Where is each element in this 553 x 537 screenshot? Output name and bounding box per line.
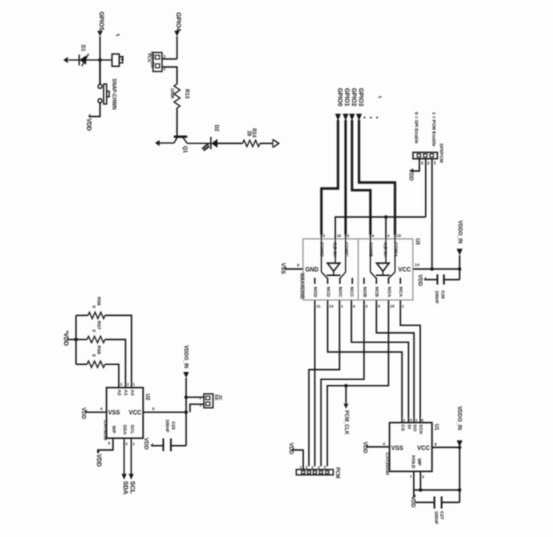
- connector PCM: [296, 470, 333, 475]
- svg-text:13: 13: [329, 304, 334, 309]
- svg-text:WP: WP: [417, 458, 422, 465]
- svg-text:LED EN: LED EN: [150, 52, 155, 68]
- svg-text:SNAP-CHWN: SNAP-CHWN: [110, 79, 116, 110]
- svg-text:SDA: SDA: [122, 425, 128, 436]
- wire GPIO1 to COMC pin6: [344, 120, 346, 235]
- svg-text:JC: JC: [218, 395, 223, 401]
- svg-text:NCA: NCA: [398, 287, 404, 298]
- svg-text:C27: C27: [440, 511, 445, 520]
- power VDD (U2 WP): [98, 451, 100, 453]
- svg-text:PCM_CLK: PCM_CLK: [343, 410, 349, 435]
- wire NOD to PCM pin3: [314, 305, 316, 466]
- svg-text:5: 5: [410, 419, 412, 423]
- wire J1 pin2 to switch control line: [425, 159, 427, 217]
- svg-text:6: 6: [421, 419, 423, 423]
- wire NCD to U1 CS: [328, 305, 402, 419]
- switch S1 SNAP-CHWN: [98, 84, 102, 88]
- U3 COMB line and arm: [369, 239, 371, 272]
- svg-text:39: 39: [246, 131, 252, 137]
- svg-text:C26: C26: [441, 290, 446, 299]
- net flag SCL (down arrow): [129, 474, 134, 480]
- analog switch U3 MAX4539B body: [303, 239, 413, 300]
- power VDD (PCM pin1): [292, 448, 294, 450]
- power VDD (C25): [151, 444, 153, 446]
- svg-text:100K: 100K: [170, 88, 175, 100]
- svg-text:PCM: PCM: [334, 467, 340, 478]
- svg-text:VDD: VDD: [95, 454, 101, 467]
- svg-text:R56: R56: [96, 297, 102, 306]
- wire NCA to U1 SCK: [400, 305, 420, 419]
- capacitor C26 100nF: [424, 279, 437, 281]
- junction U3 VCC / J1 pin1: [430, 267, 433, 270]
- svg-text:1: 1: [300, 465, 302, 469]
- svg-text:2: 2: [126, 442, 128, 446]
- wire U1 ground rail: [414, 489, 460, 491]
- junction at switch node: [98, 58, 101, 61]
- test point TP3 box: [112, 54, 119, 66]
- stray mark: [116, 34, 119, 35]
- wire GPIO2 to COMB pin4: [352, 120, 370, 235]
- U3 switch contact stubs: [314, 278, 316, 284]
- wire R58 to A2: [105, 364, 119, 383]
- svg-text:4: 4: [318, 465, 320, 469]
- net flag GPIO2: [349, 114, 355, 121]
- U3 internal driver triangle A,B: [385, 239, 387, 263]
- net flag PCM_CLK (down arrow): [345, 386, 347, 404]
- wire GPIO5 vertical: [99, 36, 101, 84]
- svg-text:SDA: SDA: [121, 481, 128, 495]
- wire VCC to VDDO_IN: [432, 268, 460, 270]
- svg-text:A2: A2: [116, 389, 122, 395]
- svg-text:5: 5: [108, 442, 110, 446]
- jumper EE JC: [204, 394, 213, 408]
- U1 top pin stubs and numbers: [401, 418, 403, 422]
- svg-text:2: 2: [415, 419, 417, 423]
- svg-text:VSS: VSS: [108, 411, 120, 417]
- power VDD (address resistors): [67, 331, 69, 333]
- svg-text:U3: U3: [414, 238, 420, 245]
- svg-text:NOC: NOC: [337, 287, 343, 298]
- wire control line to C,D IN+ and A,B IN+: [335, 217, 425, 235]
- resistor R14 39: [243, 140, 261, 146]
- net flag GPIO0: [335, 114, 341, 121]
- wire J1 pin3 to VDD: [411, 159, 419, 171]
- svg-text:GPIO4: GPIO4: [175, 12, 182, 31]
- svg-text:VDD: VDD: [408, 169, 414, 181]
- svg-text:MAX4539B: MAX4539B: [299, 273, 305, 299]
- capacitor C27 100nF: [415, 501, 435, 503]
- svg-text:VDD: VDD: [409, 496, 415, 507]
- svg-text:R57: R57: [96, 321, 102, 330]
- U3 pin GND (5): [285, 268, 303, 270]
- svg-text:GPIO3: GPIO3: [357, 88, 363, 107]
- power VDD at U2 VSS: [85, 410, 87, 412]
- power VDD at U1 VSS: [366, 445, 368, 447]
- svg-text:Q1: Q1: [181, 146, 187, 153]
- net flag (right open arrow): [273, 139, 279, 147]
- wire NOA to PCM pin5 with PCM_CLK tap: [327, 305, 388, 466]
- wire R13 to Q1: [176, 108, 178, 136]
- ellipsis dots: [364, 117, 366, 119]
- U1 bottom pin stubs and numbers: [413, 471, 415, 490]
- junction U1 VCC / VDDO_IN: [458, 446, 461, 449]
- svg-text:1 = PCM Enable: 1 = PCM Enable: [432, 112, 437, 147]
- wire address resistor rail: [75, 315, 77, 364]
- svg-text:VDD: VDD: [288, 443, 294, 455]
- svg-text:NOB: NOB: [361, 287, 367, 298]
- wire emitter to left flag: [160, 142, 174, 144]
- net flag SDA (down arrow): [122, 474, 127, 480]
- svg-text:VSS: VSS: [280, 263, 286, 274]
- svg-text:1: 1: [403, 419, 405, 423]
- svg-text:NCD: NCD: [325, 287, 331, 298]
- svg-text:10: 10: [337, 233, 342, 238]
- svg-text:5: 5: [324, 465, 326, 469]
- svg-text:VDD: VDD: [80, 407, 86, 419]
- svg-text:VDDO_IN: VDDO_IN: [456, 221, 462, 244]
- svg-text:CAT25040: CAT25040: [384, 452, 390, 475]
- jumper J2 FLG LED EN: [153, 53, 162, 72]
- wire jumper pin 2 to R13: [162, 67, 177, 84]
- U3 switch pole bar C,D: [327, 274, 341, 276]
- svg-text:SO: SO: [411, 424, 417, 431]
- EEPROM U1 CAT25040 body: [390, 423, 433, 472]
- resistor R57 0: [76, 339, 87, 341]
- U2 top pin stubs and numbers: [118, 384, 120, 388]
- svg-text:1: 1: [133, 383, 135, 387]
- wire to diode D1: [69, 59, 101, 61]
- wire GPIO3 to COMA pin15: [359, 120, 395, 235]
- junction address resistor rail: [74, 338, 77, 341]
- svg-text:HOLD: HOLD: [411, 455, 416, 469]
- svg-text:GPIO5: GPIO5: [97, 12, 104, 31]
- svg-text:A1: A1: [123, 389, 129, 395]
- svg-text:VDD: VDD: [143, 438, 149, 450]
- svg-text:VDDO_IN: VDDO_IN: [182, 345, 188, 368]
- LED D2: [210, 137, 212, 150]
- digital pot U2 CAT5259 body: [107, 388, 144, 439]
- svg-text:0: 0: [90, 329, 96, 332]
- svg-text:GPIO2: GPIO2: [350, 88, 356, 107]
- svg-text:VCC: VCC: [129, 411, 142, 417]
- svg-text:3: 3: [422, 475, 424, 479]
- svg-text:VDD: VDD: [417, 274, 423, 286]
- svg-text:SCK: SCK: [417, 424, 423, 435]
- svg-text:0: 0: [90, 354, 96, 357]
- svg-text:3: 3: [311, 465, 313, 469]
- wire VDD to PCM pin1: [292, 450, 303, 470]
- svg-text:VCC: VCC: [398, 267, 411, 273]
- wire to jumper pin 1: [162, 58, 177, 60]
- svg-text:VDD: VDD: [85, 118, 91, 131]
- U3 COMD line and arm: [320, 239, 322, 272]
- wire EEJC pin2: [186, 396, 204, 398]
- svg-text:NCC: NCC: [349, 287, 355, 298]
- net flag GPIO3: [356, 114, 362, 121]
- wire GPIO0 to COMD pin9: [321, 120, 338, 235]
- svg-text:3: 3: [120, 383, 122, 387]
- svg-text:1: 1: [133, 442, 135, 446]
- net flag (left arrow) at Q1 emitter: [155, 140, 160, 146]
- svg-text:A0: A0: [129, 389, 135, 395]
- wire switch to VDD: [89, 103, 100, 117]
- wire NCB to U1 SO: [376, 305, 414, 419]
- net flag GPIO4 (down arrow): [174, 31, 179, 37]
- svg-text:WP: WP: [111, 426, 117, 435]
- wire VCC junction down to C26: [459, 269, 461, 280]
- svg-text:SCL: SCL: [129, 425, 135, 435]
- wire R56 to A0: [105, 315, 132, 383]
- svg-text:2: 2: [127, 383, 129, 387]
- wire NOB to PCM pin4: [321, 305, 364, 466]
- U3 top pin stubs and numbers: [320, 235, 322, 239]
- wire LED to R14: [218, 142, 243, 144]
- stray mark: [378, 97, 381, 98]
- wire NCC to U1 SI: [351, 305, 408, 419]
- svg-text:D2: D2: [213, 125, 219, 132]
- net flag GPIO1: [343, 114, 349, 121]
- svg-text:R13: R13: [184, 89, 190, 99]
- svg-text:SI: SI: [406, 424, 412, 429]
- svg-text:NOD: NOD: [312, 287, 318, 298]
- net flag (left arrow) at D1: [63, 57, 68, 63]
- svg-text:R58: R58: [96, 345, 102, 354]
- wire GPIO4 down: [176, 36, 178, 59]
- U3 COMA line and arm: [394, 239, 396, 272]
- power VDD (below U1): [413, 490, 415, 497]
- power VSS at U3 GND: [285, 267, 287, 269]
- svg-text:VDD: VDD: [361, 442, 367, 454]
- svg-text:VCC: VCC: [417, 446, 430, 452]
- svg-text:VSS: VSS: [391, 446, 403, 452]
- header J1 SPI/PCM: [413, 152, 437, 158]
- junction U2 VCC: [184, 411, 187, 414]
- U3 switch pole bar A,B: [376, 274, 390, 276]
- svg-text:14: 14: [415, 262, 420, 267]
- svg-text:GPIO1: GPIO1: [343, 88, 349, 107]
- svg-text:U1: U1: [433, 424, 439, 431]
- transistor Q1: [174, 135, 187, 137]
- svg-text:NCB: NCB: [374, 287, 380, 298]
- svg-text:100nF: 100nF: [435, 290, 440, 303]
- svg-text:GND: GND: [305, 267, 319, 273]
- svg-text:TP: TP: [120, 56, 125, 62]
- U3 pin VCC (14): [413, 268, 432, 270]
- junction control line / A,B IN+: [384, 215, 387, 218]
- wire junction to switch S1: [99, 60, 101, 84]
- svg-text:100nF: 100nF: [165, 419, 170, 432]
- wire J1 pin1 to VCC: [431, 159, 433, 269]
- wire R14 to output flag: [260, 142, 273, 144]
- wire EEJC pin1: [190, 404, 204, 412]
- diode D1: [78, 55, 80, 66]
- wire collector to LED: [187, 142, 211, 144]
- svg-text:SPI/PCM: SPI/PCM: [438, 143, 444, 163]
- svg-text:CAT5259: CAT5259: [102, 420, 108, 441]
- svg-text:U2: U2: [144, 394, 150, 401]
- power VDD (J1 pin3): [411, 169, 413, 171]
- svg-text:100nF: 100nF: [434, 511, 439, 524]
- svg-text:7: 7: [410, 475, 412, 479]
- junction PCM_CLK: [344, 384, 347, 387]
- svg-text:CS: CS: [399, 424, 405, 431]
- capacitor C25 100nF: [151, 445, 163, 447]
- svg-text:2: 2: [306, 465, 308, 469]
- wire junction to TP box: [100, 59, 112, 61]
- svg-text:C25: C25: [171, 421, 176, 430]
- svg-text:NOA: NOA: [386, 287, 392, 298]
- svg-text:0: 0: [90, 305, 96, 308]
- U3 bottom pin stubs and numbers: [314, 300, 316, 305]
- svg-text:0 = SPI Enable: 0 = SPI Enable: [414, 112, 419, 144]
- U3 COMC line and arm: [345, 239, 347, 272]
- power VDD (C26): [424, 277, 426, 279]
- junction VDDO_IN: [458, 267, 461, 270]
- net flag GPIO5 (down arrow): [97, 31, 102, 37]
- resistor R56 0: [76, 314, 88, 316]
- wire R57 to A1: [105, 340, 126, 384]
- svg-text:VDDO_IN: VDDO_IN: [456, 406, 462, 430]
- wire NOC to PCM pin2: [309, 305, 340, 466]
- power VDD (switch): [89, 114, 91, 116]
- svg-text:GPIO0: GPIO0: [336, 88, 342, 107]
- svg-text:SCL: SCL: [129, 481, 136, 494]
- svg-text:15: 15: [396, 233, 401, 238]
- U3 internal driver triangle C,D: [334, 239, 336, 263]
- svg-text:D1: D1: [80, 45, 86, 52]
- svg-text:15: 15: [390, 304, 395, 309]
- resistor R58 0: [76, 363, 87, 365]
- resistor R13 100K: [174, 84, 180, 108]
